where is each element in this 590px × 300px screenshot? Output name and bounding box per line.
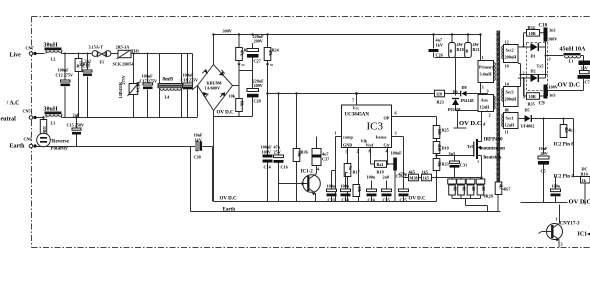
opto transistor IC1-2 [279, 167, 321, 202]
svg-text:C31: C31 [460, 163, 467, 168]
inductor L2 30uH [44, 43, 63, 62]
node rectifier output [545, 55, 547, 57]
svg-text:8: 8 [369, 149, 371, 154]
svg-text:300V: 300V [223, 29, 232, 34]
svg-text:F1: F1 [100, 60, 105, 65]
svg-text:comp: comp [343, 135, 353, 140]
svg-text:TH1: TH1 [131, 49, 139, 54]
svg-text:10R: 10R [529, 31, 537, 36]
svg-text:R21: R21 [473, 47, 480, 52]
svg-text:D5: D5 [525, 108, 530, 113]
svg-text:100n: 100n [341, 184, 350, 189]
svg-text:2n0: 2n0 [383, 175, 390, 180]
svg-text:0R28: 0R28 [484, 194, 493, 199]
svg-text:OV D.C: OV D.C [409, 197, 427, 202]
svg-text:Polarity': Polarity' [51, 147, 70, 152]
svg-text:2: 2 [357, 149, 359, 154]
bridge diode lower-left [203, 92, 208, 96]
inductor L3 30uH [44, 107, 63, 126]
resistor value smudges [42, 50, 568, 192]
connector CN7 [26, 46, 37, 56]
choke L4 8mH [158, 54, 183, 118]
net flag OV D.C aux [454, 111, 482, 129]
svg-text:IC1: IC1 [578, 232, 588, 238]
svg-text:Tx5: Tx5 [537, 64, 544, 69]
svg-text:OV D.C: OV D.C [569, 199, 590, 206]
note IRFP450 mounted on heatsink [480, 138, 506, 161]
node source junction [480, 176, 482, 178]
svg-text:R33: R33 [442, 162, 449, 167]
svg-text:9: 9 [506, 108, 508, 113]
SEC-BRIDGE [193, 29, 481, 202]
resistor R33 [433, 154, 449, 201]
svg-text:0R: 0R [481, 187, 485, 192]
winding aux 12uH [478, 89, 495, 118]
svg-text:3: 3 [549, 57, 551, 62]
svg-text:100n: 100n [552, 184, 561, 189]
capacitor C36 100nF [391, 151, 403, 202]
svg-text:12uH: 12uH [480, 105, 491, 110]
wire gate [437, 155, 474, 157]
svg-text:3: 3 [487, 89, 489, 94]
svg-text:11: 11 [505, 130, 509, 135]
pin 6 OP [392, 111, 437, 126]
resistor R22 [229, 94, 243, 117]
transformer core [497, 31, 501, 184]
svg-text:mounted on: mounted on [480, 147, 506, 152]
svg-text:3.4mH: 3.4mH [480, 72, 493, 77]
svg-text:200V: 200V [254, 83, 263, 88]
wire secondary 0V rail top [548, 91, 584, 97]
wire neutral rail [37, 117, 198, 119]
capacitor C16 47n [274, 94, 288, 202]
svg-text:SCK 2R054: SCK 2R054 [113, 62, 135, 67]
diode D2 [521, 47, 551, 82]
wire IC2 supply [573, 119, 575, 177]
capacitor C31 3n3 [449, 151, 468, 178]
resistor R35 [409, 170, 419, 181]
svg-text:1M: 1M [78, 61, 82, 67]
capacitor C24 100n [367, 175, 377, 203]
SEC-IC3 [261, 85, 488, 203]
svg-text:IC3: IC3 [367, 121, 384, 133]
svg-text:UF4002: UF4002 [521, 124, 535, 129]
svg-text:0R: 0R [461, 187, 465, 192]
resistor R18 snubber [449, 33, 464, 57]
svg-text:1: 1 [556, 217, 558, 222]
svg-text:C15 250V: C15 250V [67, 123, 85, 128]
svg-text:470p: 470p [399, 172, 408, 177]
svg-text:12uH: 12uH [505, 123, 516, 128]
wire live to bridge AC input [193, 54, 198, 118]
resistor R29 [448, 178, 457, 199]
svg-text:OV D.C: OV D.C [558, 82, 581, 89]
svg-text:Tr5: Tr5 [467, 144, 473, 149]
svg-text:2: 2 [523, 71, 525, 76]
pin 5 GND [346, 148, 348, 202]
svg-text:1: 1 [335, 131, 337, 136]
bridge diode upper-left [204, 70, 208, 75]
svg-text:Live: Live [10, 53, 22, 59]
svg-text:IRFP450: IRFP450 [484, 138, 504, 143]
resistor R25 gate [433, 126, 449, 139]
svg-text:2: 2 [561, 242, 563, 247]
wire source rail [404, 177, 482, 179]
svg-text:1n: 1n [348, 166, 352, 170]
resistor R36 [293, 94, 308, 202]
svg-text:Sec1: Sec1 [506, 116, 514, 121]
resistor R34 [523, 25, 544, 48]
winding primary 3.4mH [478, 33, 495, 110]
capacitor C14 100nF [261, 92, 273, 201]
svg-text:C14: C14 [264, 165, 272, 170]
svg-text:0R: 0R [452, 187, 456, 192]
svg-text:10R: 10R [529, 94, 537, 99]
resistor R19 [375, 161, 396, 175]
neon lamp reverse polarity [37, 133, 70, 151]
svg-text:C9: C9 [539, 102, 546, 107]
svg-text:100V: 100V [549, 85, 558, 90]
svg-text:C37: C37 [322, 157, 329, 162]
wire earth rail [37, 147, 191, 212]
thermistor TH1 SCK 2R054 [113, 45, 140, 67]
capacitor C37 electrolytic [312, 137, 329, 174]
svg-text:Sec3: Sec3 [506, 90, 514, 95]
wire bridge - output down to 0V bus [213, 111, 215, 202]
svg-text:200V: 200V [254, 39, 263, 44]
capacitor C13 [83, 53, 93, 118]
optocoupler IC1 CNY17-3 [539, 205, 590, 248]
resistor R27 4K7 [495, 182, 510, 212]
svg-text:100n: 100n [327, 184, 336, 189]
winding sec3 200uH [502, 78, 524, 113]
svg-text:Vref: Vref [366, 143, 374, 148]
svg-text:Earth: Earth [10, 144, 26, 150]
svg-text:CN7: CN7 [26, 46, 34, 51]
svg-text:Vcc: Vcc [353, 106, 360, 111]
node Vcc junctions [277, 92, 279, 94]
connector CN5 [23, 109, 37, 120]
diode D1 [518, 43, 546, 59]
resistor R15 [236, 35, 251, 102]
svg-text:4k3: 4k3 [564, 127, 568, 133]
svg-text:4k7: 4k7 [498, 184, 502, 190]
svg-text:10: 10 [505, 64, 509, 69]
svg-text:10k: 10k [239, 101, 243, 107]
diode D5 UF4002 [521, 108, 574, 129]
svg-text:45uH 10A: 45uH 10A [560, 47, 587, 53]
svg-text:IC1-2: IC1-2 [301, 170, 314, 175]
SEC-BOTTOM [191, 108, 590, 248]
svg-text:6: 6 [395, 111, 397, 116]
svg-text:3n3: 3n3 [549, 28, 556, 33]
svg-text:10k: 10k [229, 94, 236, 99]
svg-text:1: 1 [482, 55, 484, 60]
resistor R30 [457, 178, 466, 199]
resistor R31 [466, 178, 475, 199]
svg-text:100n: 100n [367, 175, 376, 180]
svg-text:200uH: 200uH [505, 55, 518, 60]
capacitor C27 220uF [239, 34, 264, 89]
pin 2 Vfb [357, 148, 359, 202]
svg-text:D1: D1 [531, 54, 536, 59]
capacitor C12 [56, 53, 74, 118]
wire doubler bottom rail [214, 116, 253, 118]
svg-text:D8: D8 [462, 85, 467, 90]
wire live rail [37, 53, 193, 55]
svg-text:100V: 100V [262, 150, 271, 155]
SEC-INPUT [1, 43, 213, 212]
resistor R17 [353, 185, 360, 197]
Vcc bus from startup to aux [268, 93, 461, 95]
resistor R37 [422, 170, 432, 181]
svg-text:47k: 47k [239, 50, 243, 56]
svg-text:5: 5 [346, 150, 348, 155]
svg-text:10k: 10k [437, 161, 441, 167]
capacitor C35 2n0 [382, 175, 392, 203]
svg-text:22k: 22k [357, 187, 361, 193]
resistor R32 [476, 178, 485, 199]
svg-text:100nF: 100nF [391, 151, 403, 156]
svg-text:10k: 10k [297, 151, 301, 157]
svg-text:2R5-3A: 2R5-3A [116, 45, 130, 50]
svg-text:40V: 40V [541, 151, 548, 156]
pin 1 comp [335, 131, 342, 202]
fuse F1 3.15A-T [89, 45, 111, 65]
svg-text:R23: R23 [437, 100, 444, 105]
svg-text:4148: 4148 [437, 144, 441, 151]
pin 4 Ct [386, 148, 389, 165]
svg-text:D9: D9 [453, 90, 458, 95]
svg-text:IN5408: IN5408 [448, 107, 461, 112]
resistor R14 [574, 172, 590, 205]
svg-text:47k: 47k [268, 50, 272, 56]
svg-text:3n3: 3n3 [549, 93, 556, 98]
svg-text:L3: L3 [51, 121, 56, 126]
svg-text:12: 12 [505, 40, 509, 45]
svg-text:2: 2 [489, 113, 491, 118]
svg-text:L1: L1 [569, 59, 574, 64]
svg-text:C12 275V: C12 275V [56, 73, 74, 78]
capacitor C28 220uF [247, 79, 264, 117]
svg-text:200uH: 200uH [505, 97, 518, 102]
pin 8 Vref [369, 148, 375, 165]
svg-text:100V: 100V [548, 37, 557, 42]
node HT junctions [238, 33, 240, 35]
svg-text:1kV: 1kV [436, 43, 443, 48]
svg-text:Isense: Isense [376, 135, 387, 140]
svg-text:R18: R18 [457, 47, 464, 52]
svg-text:IC2 Pin 8: IC2 Pin 8 [554, 143, 575, 148]
svg-text:C30: C30 [194, 155, 201, 160]
svg-text:220k: 220k [42, 126, 46, 133]
svg-text:CN6: CN6 [24, 137, 32, 142]
SEC-SECY [518, 24, 590, 107]
resistor R40 [560, 118, 574, 138]
svg-text:OP: OP [384, 116, 390, 121]
bridge rectifier BR1 KBU8M [198, 65, 233, 111]
svg-text:2nF: 2nF [73, 113, 80, 118]
capacitor C9 3n3 [539, 85, 558, 107]
wire rectified output to L1 [546, 55, 564, 57]
svg-text:C26: C26 [436, 53, 443, 58]
bridge diode upper-right [219, 72, 224, 76]
earth bus [191, 211, 501, 213]
winding sec1 12uH [502, 108, 523, 135]
svg-text:7: 7 [352, 98, 354, 103]
dual diode package dashed box [527, 43, 548, 91]
svg-text:1A/600V: 1A/600V [205, 86, 221, 91]
svg-text:0R: 0R [471, 187, 475, 192]
connector CN6 [24, 137, 37, 148]
svg-text:UC3845AN: UC3845AN [345, 113, 370, 118]
svg-text:CN5: CN5 [23, 109, 31, 114]
svg-text:eutral: eutral [1, 117, 17, 123]
svg-text:C16: C16 [281, 165, 288, 170]
svg-text:heatsink: heatsink [484, 156, 502, 161]
svg-text:C18 275V: C18 275V [181, 78, 199, 83]
HT+ bus 300V DC [214, 34, 481, 36]
svg-text:L2: L2 [51, 57, 56, 62]
svg-text:Earth: Earth [223, 208, 236, 213]
winding sec2 200uH [502, 40, 548, 87]
capacitor C17 [140, 53, 158, 118]
svg-text:R25: R25 [442, 128, 449, 133]
capacitor C18 [181, 54, 199, 118]
svg-text:/ A.C: / A.C [6, 101, 20, 107]
svg-text:'Reverse: 'Reverse [51, 140, 70, 145]
svg-text:3: 3 [482, 85, 484, 90]
pin 7 Vcc [352, 94, 357, 106]
pin 3 Isense [392, 131, 404, 178]
IC3 UC3845AN box [342, 105, 392, 148]
svg-text:C27: C27 [254, 59, 261, 64]
wire bridge AC to doubler midpoint [233, 85, 240, 87]
capacitor C25 470p [399, 172, 409, 203]
resistor R16 startup [264, 35, 279, 94]
capacitor C15 2nF [67, 113, 85, 147]
diode D9 IN5408 [448, 90, 488, 113]
svg-text:3.15A-T: 3.15A-T [89, 45, 104, 50]
svg-text:14D431K: 14D431K [118, 81, 123, 98]
wire sense resistor bottom rail [452, 199, 488, 212]
svg-text:4K7: 4K7 [503, 187, 510, 192]
capacitor C34 100n [341, 173, 351, 203]
wire secondary 0V rail bottom [521, 202, 568, 204]
svg-text:R35: R35 [528, 102, 535, 107]
resistor R23 [435, 90, 445, 104]
SEC-MOSFET [404, 33, 493, 211]
wire snubber rail [435, 58, 469, 96]
svg-text:3n3: 3n3 [449, 151, 456, 156]
svg-text:1k: 1k [582, 178, 587, 183]
resistor R38 snubber [523, 77, 548, 107]
svg-text:OV D.C: OV D.C [217, 111, 235, 116]
svg-text:Ra1: Ra1 [377, 162, 384, 167]
bridge diode lower-right [220, 92, 225, 96]
capacitor C33 100n [327, 171, 337, 203]
svg-text:R14: R14 [581, 172, 589, 177]
snubber capacitor C26 4n7 [429, 33, 443, 57]
svg-text:D2: D2 [531, 69, 536, 74]
capacitor C10 3n3 [544, 28, 558, 56]
capacitor C8 100n [551, 177, 561, 203]
capacitor C5 10uF [538, 118, 549, 203]
svg-text:IN4148: IN4148 [461, 98, 474, 103]
svg-text:35V: 35V [581, 66, 588, 71]
svg-text:Aux: Aux [481, 98, 489, 103]
resistor R13 [75, 53, 90, 118]
svg-text:IC2 Pin 4: IC2 Pin 4 [554, 175, 575, 180]
svg-text:Sec2: Sec2 [506, 48, 514, 53]
svg-text:M38: M38 [410, 176, 418, 181]
transistor Tr5 IRFP450 [467, 111, 486, 178]
svg-text:3: 3 [395, 131, 397, 136]
diode D10 gate [433, 139, 449, 159]
capacitor C32 on GND [344, 164, 360, 177]
resistor R12 reverse polarity [40, 116, 46, 136]
SEC-XFMR [478, 31, 548, 212]
svg-text:OV D.C: OV D.C [220, 197, 238, 202]
svg-text:Primary: Primary [479, 65, 495, 70]
resistor R21 snubber [465, 33, 480, 57]
svg-text:Ctr: Ctr [384, 143, 390, 148]
svg-text:D10: D10 [442, 146, 449, 151]
svg-text:8mH: 8mH [163, 78, 174, 83]
wire bridge + output up to HT bus [213, 35, 215, 65]
svg-text:25V: 25V [274, 150, 281, 155]
svg-text:C28: C28 [254, 99, 261, 104]
svg-text:110: 110 [436, 92, 442, 97]
capacitor C30 earth to 0V [191, 133, 213, 202]
svg-text:C13: C13 [83, 64, 90, 69]
varistor VCR1 14D431K [118, 53, 141, 118]
inductor L1 45uH 10A [560, 47, 587, 71]
svg-text:GND: GND [343, 143, 352, 148]
0V DC primary bus [214, 201, 437, 203]
capacitor C7 output electrolytic [578, 61, 590, 91]
svg-text:C7: C7 [585, 80, 590, 85]
diode D8 IN4148 [461, 85, 488, 103]
dash-dot enclosure border [32, 17, 590, 248]
svg-text:10R: 10R [437, 129, 441, 136]
svg-text:1k5: 1k5 [423, 176, 430, 181]
svg-text:CNY17-3: CNY17-3 [560, 222, 580, 227]
svg-text:OV D.C: OV D.C [459, 120, 482, 127]
